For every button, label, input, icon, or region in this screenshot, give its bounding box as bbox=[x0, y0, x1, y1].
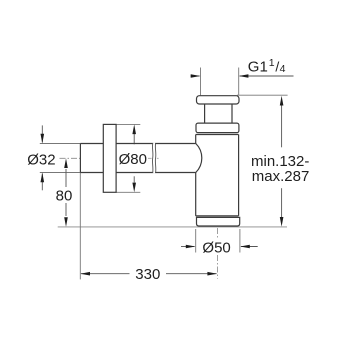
dimension 330 left extension line bbox=[79, 173, 81, 280]
trap top flange bbox=[197, 96, 240, 104]
bottom reference line y=227 bbox=[58, 226, 287, 228]
trap vertical centerline below bbox=[217, 228, 219, 279]
dimension Ø32 extension lines bbox=[40, 144, 81, 173]
svg-text:G1: G1 bbox=[248, 58, 268, 75]
pipe centerline bbox=[60, 157, 82, 159]
trap collar bbox=[196, 123, 239, 133]
svg-text:4: 4 bbox=[280, 63, 286, 75]
dimension Ø50 arrows bbox=[181, 246, 258, 248]
dimension Ø80 arrows bbox=[133, 134, 135, 183]
dimension min/max top extension line bbox=[237, 94, 288, 96]
svg-text:Ø32: Ø32 bbox=[27, 151, 55, 168]
dimension 330 line bbox=[81, 273, 217, 275]
pipe joint seam (break symbol) bbox=[153, 143, 155, 174]
dimension G1 1/4 extension lines bbox=[201, 68, 239, 96]
dimension Ø32 arrows bbox=[41, 125, 43, 190]
trap body bbox=[196, 135, 239, 216]
svg-text:1: 1 bbox=[269, 57, 275, 69]
svg-text:80: 80 bbox=[56, 187, 73, 204]
pipe end dome at trap bbox=[196, 144, 202, 173]
dimension min/max vertical line bbox=[281, 105, 283, 218]
svg-text:330: 330 bbox=[135, 266, 160, 283]
horizontal pipe bbox=[80, 144, 195, 173]
dimension Ø80 extension lines bbox=[116, 124, 140, 192]
svg-text:max.287: max.287 bbox=[252, 168, 310, 185]
centerline dash at seam bbox=[148, 157, 159, 159]
trap top neck bbox=[205, 104, 232, 123]
wall flange Ø80 bbox=[103, 124, 116, 192]
trap bottom cap bbox=[197, 217, 240, 226]
svg-text:Ø50: Ø50 bbox=[202, 240, 230, 257]
dimension Ø50 extension lines bbox=[196, 229, 240, 253]
svg-text:Ø80: Ø80 bbox=[119, 151, 147, 168]
dimension 80 vertical line bbox=[65, 169, 67, 216]
dimension G1 1/4 arrows bbox=[191, 75, 294, 77]
